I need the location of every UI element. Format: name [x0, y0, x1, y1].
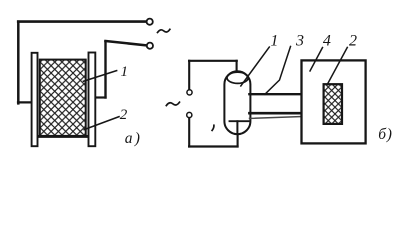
svg-text:4: 4	[323, 32, 331, 49]
svg-text:а): а)	[125, 130, 142, 147]
svg-text:1: 1	[270, 32, 278, 49]
svg-text:2: 2	[349, 32, 357, 49]
svg-text:2: 2	[120, 107, 128, 123]
svg-text:3: 3	[295, 32, 304, 49]
svg-text:б): б)	[378, 126, 393, 143]
svg-text:1: 1	[121, 64, 129, 80]
